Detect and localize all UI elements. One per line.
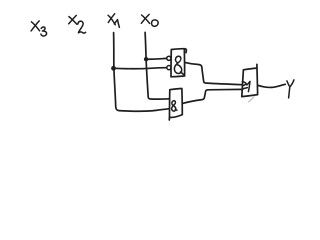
and gate U2 (box)	[169, 89, 182, 121]
node junction on x1	[111, 66, 116, 71]
label x1	[108, 14, 119, 28]
label x3	[31, 21, 46, 36]
wire x0 junction to U1 upper bubble input	[146, 57, 167, 60]
label x2	[69, 15, 86, 33]
wire x1 vertical down and along bottom to U2 lower input	[114, 33, 170, 112]
U1 input bubble pin 1	[167, 56, 171, 60]
wire U3 output to Y	[258, 84, 286, 87]
wire U1 output to U3 upper input	[185, 62, 243, 84]
and gate U1 with inverted inputs (box)	[171, 49, 186, 77]
wire U2 output to U3 lower input	[183, 89, 243, 103]
or gate U3 (box)	[242, 64, 258, 102]
U1 input bubble pin 2	[167, 66, 171, 70]
node junction on x0	[144, 57, 148, 61]
wire x0 vertical down and to U2 upper input	[145, 32, 169, 99]
U1 ampersand label	[174, 56, 183, 74]
label x0	[141, 14, 158, 26]
U2 ampersand label	[172, 101, 177, 111]
label Y	[287, 80, 294, 98]
U3 gte-one label	[242, 81, 250, 91]
wire x1 junction to U1 lower bubble input	[114, 68, 167, 69]
